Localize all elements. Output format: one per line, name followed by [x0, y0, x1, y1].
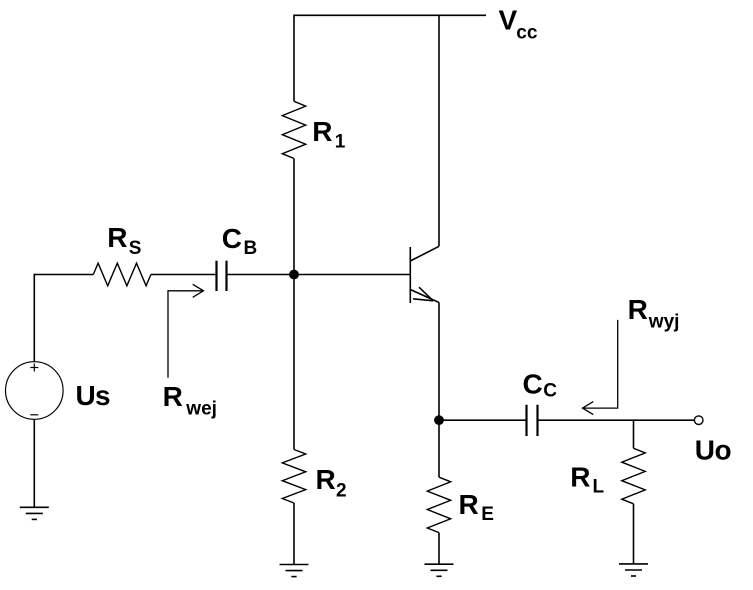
svg-text:cc: cc [516, 22, 538, 43]
ground under Us [20, 507, 49, 519]
wire RS to CB [151, 274, 217, 276]
svg-text:wyj: wyj [648, 312, 680, 333]
capacitor CC [527, 405, 538, 436]
ground under RL [619, 564, 648, 576]
ground under R2 [280, 565, 309, 577]
wire emitter node to CC [439, 419, 527, 421]
svg-text:L: L [593, 477, 605, 498]
wire base (node to transistor) [294, 274, 410, 276]
svg-text:R: R [316, 464, 336, 495]
resistor RE [427, 477, 450, 532]
wire base node to R2 [293, 275, 295, 450]
wire RL top [633, 420, 635, 448]
wire RL bottom [633, 504, 635, 564]
ground under RE [425, 564, 454, 576]
wire source bottom [33, 419, 35, 507]
wire R1 bottom to base node [293, 159, 295, 275]
svg-text:R: R [628, 294, 648, 325]
svg-text:E: E [481, 504, 494, 525]
wire left horizontal (corner to RS) [34, 274, 94, 276]
wire collector to Vcc rail [438, 15, 440, 247]
wire RE bottom [438, 533, 440, 565]
svg-text:wej: wej [185, 399, 217, 420]
wire source top (corner to circle) [33, 274, 35, 362]
transistor Q1 (NPN) [410, 246, 439, 303]
node emitter junction (dot) [434, 415, 444, 425]
wire Vcc rail (top) [294, 14, 486, 16]
svg-text:R: R [107, 222, 127, 253]
wire CB to base node [227, 274, 295, 276]
svg-text:U: U [76, 380, 96, 411]
wire emitter node to RE [438, 420, 440, 477]
resistor RS [93, 263, 151, 286]
output terminal Uo (open circle) [694, 416, 703, 425]
resistor R1 [282, 101, 305, 158]
svg-text:S: S [129, 238, 142, 259]
wire R2 bottom [293, 503, 295, 565]
svg-text:s: s [95, 380, 111, 411]
node base junction (dot) [289, 270, 299, 280]
wire CC to output terminal [538, 419, 695, 421]
resistor R2 [282, 450, 305, 504]
svg-text:1: 1 [335, 132, 346, 153]
svg-text:R: R [570, 462, 590, 493]
voltage source Us [6, 362, 64, 420]
wire R1 top (rail to R1) [293, 15, 295, 102]
svg-text:C: C [222, 223, 242, 254]
arrow Rwej (input resistance pointer) [168, 284, 204, 377]
svg-text:U: U [695, 435, 715, 466]
svg-text:R: R [312, 116, 332, 147]
capacitor CB [217, 261, 227, 291]
svg-text:V: V [499, 5, 518, 36]
svg-text:B: B [244, 238, 258, 259]
svg-text:R: R [163, 381, 183, 412]
resistor RL [622, 448, 645, 504]
svg-text:2: 2 [336, 481, 347, 502]
arrow Rwyj (output resistance pointer) [583, 320, 618, 415]
wire emitter to emitter node [438, 303, 440, 421]
svg-text:C: C [523, 369, 543, 400]
svg-text:R: R [459, 489, 479, 520]
svg-text:o: o [715, 435, 732, 466]
svg-text:C: C [543, 381, 557, 402]
